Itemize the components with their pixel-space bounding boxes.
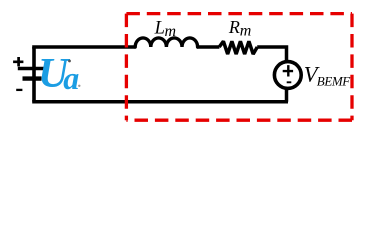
red dashed boundary box: top edge <box>126 12 352 15</box>
wire: inductor to resistor <box>197 45 219 49</box>
svg-text:R: R <box>228 17 240 37</box>
red dashed boundary box: right edge <box>350 14 353 121</box>
resistor Rm <box>219 41 257 54</box>
inductor Lm <box>135 38 197 47</box>
svg-text:a: a <box>63 60 79 96</box>
battery top plate <box>18 67 44 70</box>
battery minus sign <box>16 89 22 91</box>
svg-text:m: m <box>165 23 177 40</box>
battery plus sign <box>13 57 23 66</box>
svg-text:L: L <box>154 18 165 38</box>
artifact dot above a <box>68 60 71 63</box>
svg-text:BEMF: BEMF <box>317 74 352 89</box>
minus inside source <box>287 81 292 83</box>
red dashed boundary box: bottom edge <box>126 119 352 122</box>
wire: source bottom stub <box>285 88 289 102</box>
artifact dot right of a <box>78 85 80 87</box>
plus inside source <box>283 65 293 76</box>
voltage source VBEMF <box>274 62 301 89</box>
red dashed boundary box: left edge <box>125 14 128 121</box>
wire left vertical (battery Ua branch) <box>32 47 36 102</box>
wire: top run from battery to inductor <box>32 45 135 49</box>
svg-text:m: m <box>240 23 252 40</box>
wire: bottom return <box>32 100 288 104</box>
battery bottom plate <box>23 76 42 80</box>
wire: resistor to source top corner <box>257 47 286 62</box>
